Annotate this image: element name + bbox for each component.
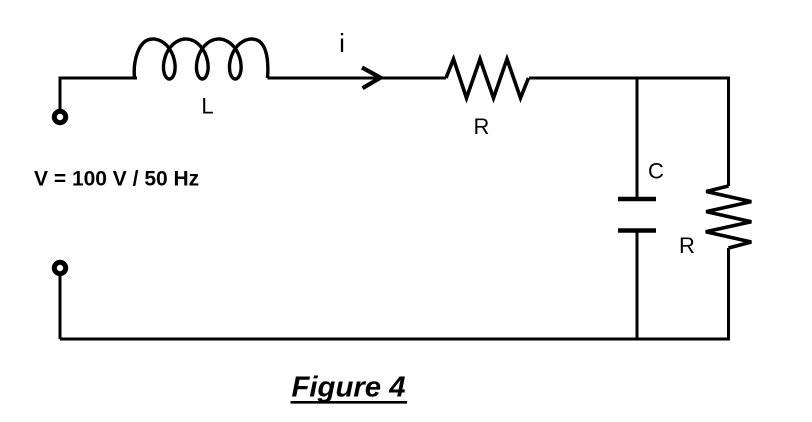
wire bottom-left terminal to bottom wire: [59, 274, 62, 339]
wire inductor to resistor R1: [268, 77, 447, 80]
svg-text:L: L: [201, 94, 213, 119]
terminal bottom-left: [54, 262, 65, 273]
capacitor C top plate: [618, 197, 656, 202]
terminal top-left: [54, 111, 65, 122]
capacitor C bottom plate: [618, 228, 656, 233]
bottom wire: [60, 338, 730, 341]
svg-text:R: R: [679, 233, 695, 258]
svg-text:R: R: [474, 114, 490, 139]
current arrow i: [362, 68, 381, 89]
node junction capacitor branch: [636, 78, 639, 199]
svg-text:i: i: [339, 28, 345, 58]
wire resistor to top-right corner: [529, 77, 729, 80]
resistor R1 (series): [446, 59, 529, 98]
caption underline: [291, 401, 408, 404]
svg-text:V = 100 V / 50 Hz: V = 100 V / 50 Hz: [34, 168, 199, 191]
svg-text:C: C: [648, 159, 664, 184]
wire top-right corner down to resistor R2: [727, 77, 730, 187]
resistor R2 (shunt): [706, 186, 752, 248]
wire top-left from terminal to inductor: [60, 78, 137, 111]
wire resistor R2 to bottom: [727, 248, 730, 339]
wire capacitor to bottom: [636, 231, 639, 340]
svg-text:Figure 4: Figure 4: [292, 372, 406, 404]
inductor L: [134, 39, 268, 79]
